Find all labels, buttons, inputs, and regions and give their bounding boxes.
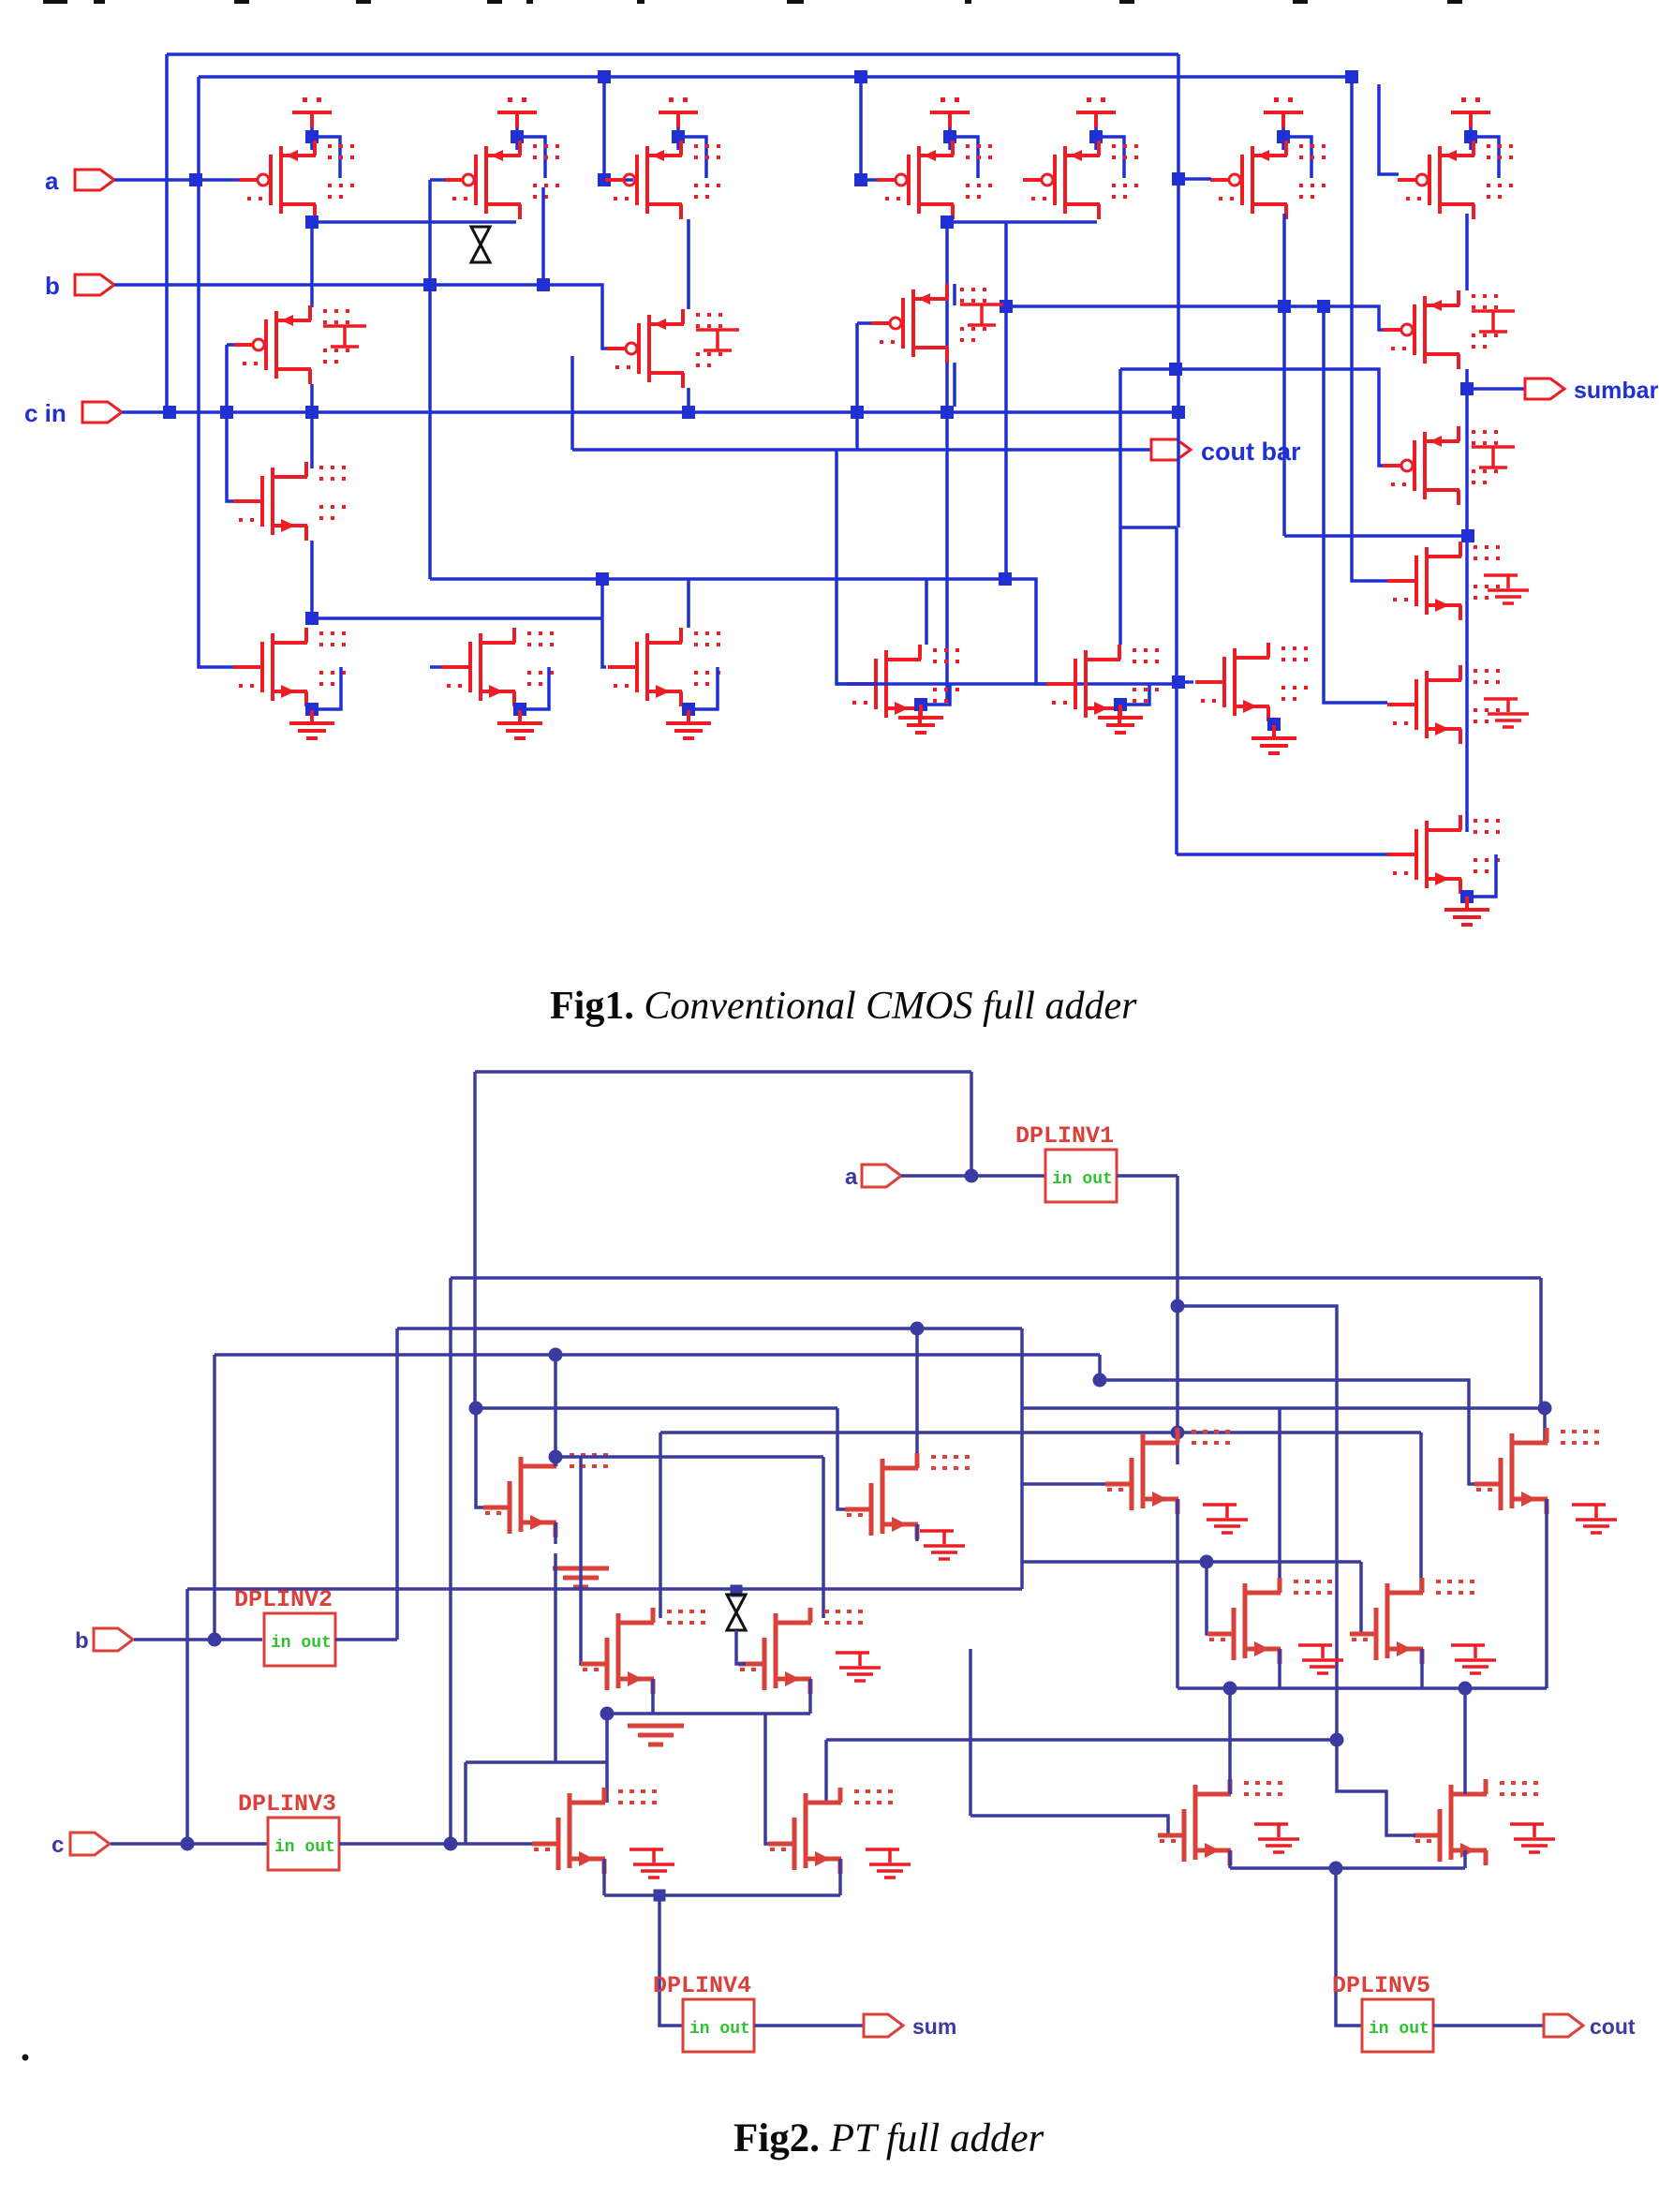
junction cin/col1 bbox=[220, 406, 233, 419]
transistor M60 (NMOS) bbox=[1158, 1779, 1282, 1865]
wire c vertical bbox=[185, 1589, 189, 1844]
wire M19 source bbox=[1272, 721, 1276, 735]
wire M33 drain vertical bbox=[822, 1457, 825, 1618]
svg-text:cout bar: cout bar bbox=[1201, 438, 1301, 466]
wire DPLINV5 out bbox=[1433, 2024, 1543, 2027]
junction row1829 bbox=[600, 1707, 615, 1721]
transistor M18 (PMOS) bbox=[1383, 426, 1498, 505]
wire M3 drain to M12 bbox=[687, 219, 690, 309]
port a bbox=[75, 170, 114, 190]
wire M15 drain up bbox=[953, 284, 956, 305]
ground M61 sub bbox=[1510, 1824, 1555, 1852]
wire M1 drain to M8 source bbox=[310, 219, 314, 307]
svg-text:DPLINV4: DPLINV4 bbox=[653, 1972, 751, 1999]
junction x1174/row1473 bbox=[1093, 1373, 1107, 1388]
VDD supply M3 bbox=[659, 97, 698, 127]
wire bulk loop M6 bbox=[1284, 137, 1311, 178]
transistor M8 (PMOS) bbox=[234, 305, 349, 384]
wire row 1938 to M60 gate bbox=[970, 1816, 1168, 1835]
cropped text line fragments (top of page) bbox=[43, 0, 67, 4]
ground M43 sub bbox=[1451, 1645, 1496, 1673]
wire x979 link bbox=[915, 1329, 919, 1433]
wire row 912 bbox=[1177, 853, 1417, 856]
wire M13 bulk loop bbox=[689, 667, 718, 709]
wire row 1857 bbox=[826, 1738, 1337, 1742]
wire to M50 drain bbox=[605, 1714, 609, 1803]
wire M11 source bbox=[518, 706, 522, 720]
wire M13 source bbox=[687, 706, 690, 720]
wire b input row bbox=[114, 285, 609, 349]
transistor M3 (PMOS) bbox=[605, 141, 720, 219]
wire row 1503 bbox=[476, 1406, 837, 1410]
wire row 1696 bbox=[187, 1587, 1022, 1591]
wire VDD stub M2 bbox=[515, 127, 519, 150]
substrate tie bbox=[1472, 311, 1515, 332]
junction cin/col3 stack bbox=[682, 406, 695, 419]
transistor M40 (NMOS) bbox=[1105, 1428, 1230, 1514]
junction VDD M3 bbox=[672, 130, 685, 143]
junction b node bbox=[208, 1633, 222, 1647]
wire x1174 drop bbox=[1098, 1355, 1102, 1380]
junction b / col2 bbox=[423, 278, 437, 291]
ground M42 sub bbox=[1298, 1645, 1343, 1673]
junction cout node bbox=[1329, 1862, 1343, 1876]
wire DPLINV2 out bbox=[335, 1638, 397, 1641]
wire M17 drain chain x1196 bbox=[1118, 369, 1122, 645]
junction inner rail / P3 gate drop bbox=[598, 70, 611, 83]
wire a input bbox=[114, 178, 242, 182]
wire M15 source to cin bbox=[953, 363, 956, 407]
wire x1413 to M21 gate bbox=[1324, 306, 1387, 703]
wire M31 source bbox=[915, 1524, 919, 1541]
junction M19 source bbox=[1267, 718, 1281, 731]
junction sum node bbox=[654, 1890, 666, 1902]
transistor M2 (PMOS) bbox=[444, 141, 559, 219]
wire VDD stub M3 bbox=[676, 127, 680, 150]
wire M7 to M14 bbox=[1465, 214, 1469, 290]
wire DPLINV1 out bbox=[1117, 1174, 1178, 1178]
junction x1258/M19 gate bbox=[1172, 675, 1185, 689]
ground M21 sub bbox=[1484, 699, 1529, 727]
wire M60 drain up bbox=[1228, 1688, 1232, 1794]
wire row 326 to M14 gate bbox=[1006, 306, 1387, 330]
ground M33 sub bbox=[836, 1653, 881, 1681]
transistor M1 (PMOS) bbox=[239, 141, 354, 219]
transistor M12 (PMOS) bbox=[607, 309, 722, 388]
transistor M15 (PMOS) bbox=[871, 284, 986, 363]
wire M50 source down bbox=[602, 1859, 606, 1895]
svg-text:sumbar: sumbar bbox=[1574, 378, 1659, 404]
port c bbox=[70, 1833, 110, 1855]
wire bulk loop M7 bbox=[1472, 137, 1499, 178]
svg-text:in out: in out bbox=[689, 2020, 750, 2039]
wire row 1667 bbox=[1022, 1560, 1361, 1564]
junction row618 col3 bbox=[596, 572, 609, 586]
wire VDD outer rail bbox=[167, 52, 1178, 56]
wire VDD stub M4 bbox=[948, 127, 952, 150]
wire M8 to M9 bbox=[310, 384, 314, 468]
junction cin/col1 stack bbox=[305, 406, 318, 419]
wire M19 gate lead bbox=[1178, 680, 1193, 684]
junction c-out node bbox=[444, 1837, 458, 1851]
transistor M4 (PMOS) bbox=[877, 141, 992, 219]
wire row 1364 bbox=[451, 1276, 1541, 1280]
svg-text:DPLINV1: DPLINV1 bbox=[1015, 1122, 1114, 1150]
svg-text:in out: in out bbox=[1052, 1170, 1113, 1189]
wire bulk loop M3 bbox=[679, 137, 706, 178]
wire M13 drain up bbox=[687, 579, 690, 628]
transistor M14 (PMOS) bbox=[1383, 290, 1498, 369]
junction cin/right vertical bbox=[1172, 406, 1185, 419]
ground M50 sub bbox=[630, 1849, 674, 1878]
wire M51 gate feed bbox=[765, 1714, 778, 1844]
junction row1418/x979 bbox=[911, 1322, 925, 1336]
wire x1091 vertical bbox=[1020, 1329, 1024, 1589]
transistor M33 (NMOS) bbox=[738, 1608, 863, 1694]
wire col4 vertical bbox=[1004, 222, 1008, 579]
junction cin/P4m gate bbox=[851, 406, 864, 419]
ground M22 bbox=[1444, 897, 1489, 925]
junction VDD M2 bbox=[511, 130, 524, 143]
ground col3 bbox=[666, 710, 711, 738]
svg-text:DPLINV2: DPLINV2 bbox=[234, 1586, 333, 1613]
transistor M17 (NMOS) bbox=[1046, 645, 1159, 723]
wire M60 source bbox=[1228, 1850, 1232, 1868]
transistor M51 (NMOS) bbox=[768, 1788, 893, 1874]
wire M22 bulk loop bbox=[1468, 854, 1496, 897]
ground M40 sub bbox=[1203, 1505, 1248, 1533]
substrate tie bbox=[960, 304, 1003, 325]
junction cin/col4 chain bbox=[941, 406, 954, 419]
wire P3 gate feed bbox=[604, 77, 633, 180]
wire M9 source down bbox=[310, 541, 314, 618]
svg-text:a: a bbox=[845, 1165, 858, 1190]
wire DPLINV2 out vertical bbox=[395, 1329, 399, 1640]
junction M4 drain bbox=[941, 215, 954, 229]
wire M7 gate feed bbox=[1379, 84, 1399, 174]
junction M16 source bbox=[914, 698, 927, 711]
ground col2 bbox=[497, 710, 542, 738]
port a bbox=[862, 1165, 901, 1187]
transistor M7 (PMOS) bbox=[1398, 141, 1513, 219]
wire VDD stub M5 bbox=[1094, 127, 1098, 150]
junction VDD M6 bbox=[1277, 130, 1290, 143]
svg-text:a: a bbox=[45, 167, 59, 195]
junction VDD M4 bbox=[943, 130, 956, 143]
substrate tie bbox=[323, 326, 366, 347]
wire M61 drain up bbox=[1463, 1688, 1467, 1794]
wire sumbar out bbox=[1467, 387, 1524, 391]
wire P4m gate lead bbox=[857, 321, 874, 325]
svg-text:DPLINV5: DPLINV5 bbox=[1332, 1972, 1430, 1999]
wire M42 gate feed bbox=[1207, 1562, 1220, 1634]
svg-text:DPLINV3: DPLINV3 bbox=[238, 1790, 336, 1818]
svg-text:in out: in out bbox=[1369, 2020, 1429, 2039]
symbol X pass marker 2 bbox=[727, 1595, 746, 1630]
junction row1503/left bbox=[469, 1402, 483, 1416]
junction c node bbox=[181, 1837, 195, 1851]
stray period bbox=[22, 2055, 29, 2061]
wire row 1802 bbox=[1178, 1686, 1547, 1690]
ground M41 sub bbox=[1572, 1505, 1617, 1533]
junction X node bbox=[731, 1585, 743, 1597]
VDD supply M2 bbox=[497, 97, 537, 127]
wire x1257 chain bbox=[1176, 1176, 1179, 1464]
junction VDD M5 bbox=[1089, 130, 1103, 143]
wire row 1446 bbox=[215, 1353, 1100, 1357]
junction x593/row1555 bbox=[549, 1450, 563, 1464]
wire inner rail bbox=[199, 75, 1352, 79]
svg-text:in out: in out bbox=[274, 1838, 335, 1857]
ground col4b bbox=[898, 705, 943, 733]
junction inner rail / P4 gate drop bbox=[854, 70, 867, 83]
wire M4-M5 drain row bbox=[947, 220, 1097, 224]
wire b input bbox=[134, 1638, 262, 1641]
wire M32 drain vertical bbox=[659, 1433, 662, 1618]
junction sumbar bbox=[1460, 382, 1474, 395]
transistor M42 (NMOS) bbox=[1207, 1578, 1332, 1664]
junction P4 gate bbox=[854, 173, 867, 186]
VDD supply M6 bbox=[1264, 97, 1303, 127]
transistor M10 (NMOS) bbox=[233, 628, 346, 706]
wire M10 source bbox=[310, 706, 314, 720]
junction inner rail corner bbox=[1345, 70, 1358, 83]
junction b / P2 drain bbox=[537, 278, 550, 291]
transistor M50 (NMOS) bbox=[532, 1788, 657, 1874]
junction M13 source bbox=[682, 703, 695, 716]
wire M2 drain drop bbox=[541, 187, 545, 285]
transistor M5 (PMOS) bbox=[1023, 141, 1138, 219]
wire row1473 to M41 gate bbox=[1100, 1380, 1478, 1484]
wire row 660 bbox=[312, 616, 570, 620]
wire M43 gate feed bbox=[1361, 1562, 1362, 1634]
wire M11 bulk loop bbox=[521, 667, 549, 709]
junction M6 drain bbox=[1278, 300, 1291, 313]
transistor M32 (NMOS) bbox=[581, 1608, 705, 1694]
wire top loop horizontal bbox=[475, 1070, 971, 1074]
transistor M19 (NMOS) bbox=[1195, 643, 1308, 721]
junction a / vertical bbox=[189, 173, 202, 186]
symbol X pass marker bbox=[471, 227, 490, 262]
wire x1427 long vertical bbox=[1306, 1306, 1337, 1740]
port sumbar bbox=[1525, 379, 1564, 399]
wire M16 source bbox=[919, 701, 923, 714]
junction VDD M7 bbox=[1464, 130, 1477, 143]
transistor M43 (NMOS) bbox=[1350, 1578, 1474, 1664]
wire M33 source down bbox=[808, 1679, 812, 1714]
wire DPLINV3 out to M50 gate bbox=[339, 1842, 553, 1846]
wire row 618 bbox=[430, 579, 1051, 684]
wire VDD stub M6 bbox=[1281, 127, 1285, 150]
wire M6 drain long bbox=[1282, 214, 1286, 536]
ground col1 bbox=[289, 710, 334, 738]
transistor M21 (NMOS) bbox=[1387, 665, 1500, 744]
wire M43 source bbox=[1420, 1649, 1424, 1688]
wire bulk loop M2 bbox=[518, 137, 545, 178]
transistor M6 (PMOS) bbox=[1210, 141, 1326, 219]
wire row 1418 bbox=[397, 1327, 1022, 1330]
ground M51 sub bbox=[866, 1849, 911, 1878]
junction x1257/row1529 bbox=[1171, 1426, 1185, 1440]
wire M16 drain up bbox=[925, 579, 928, 645]
junction a node bbox=[965, 1169, 979, 1183]
port b bbox=[94, 1628, 133, 1651]
wire bulk loop M1 bbox=[313, 137, 340, 178]
transistor M22 (NMOS) bbox=[1387, 815, 1500, 894]
svg-text:Fig1. Conventional CMOS full a: Fig1. Conventional CMOS full adder bbox=[550, 985, 1137, 1028]
wire M41 source down bbox=[1545, 1499, 1548, 1688]
svg-text:Fig2. PT full adder: Fig2. PT full adder bbox=[733, 2116, 1044, 2160]
wire row 394 to M18 gate bbox=[1120, 369, 1387, 466]
port b bbox=[75, 275, 114, 295]
junction M1 drain bbox=[305, 215, 318, 229]
wire to DPLINV4 bbox=[659, 1895, 683, 2026]
wire row 660 extension bbox=[570, 616, 602, 620]
wire x497 drop bbox=[464, 1762, 467, 1844]
wire b vertical bbox=[213, 1355, 216, 1640]
wire row 572 bbox=[1284, 534, 1468, 538]
svg-text:b: b bbox=[45, 272, 60, 300]
junction M11 source bbox=[513, 703, 526, 716]
wire row 1555 bbox=[555, 1455, 823, 1459]
wire gate row 730 bbox=[837, 682, 1178, 686]
wire x1036 vertical bbox=[969, 1649, 972, 1816]
wire top loop left vertical bbox=[473, 1072, 477, 1408]
wire M10 bulk loop bbox=[313, 667, 341, 709]
wire M30 source bbox=[554, 1522, 557, 1544]
wire M22 source bbox=[1465, 894, 1469, 906]
wire M6 gate lead bbox=[1178, 177, 1211, 181]
wire col3 mid vertical bbox=[570, 356, 574, 450]
wire cin row bbox=[122, 410, 1178, 414]
wire M51 drain up bbox=[824, 1740, 828, 1803]
wire x915 vertical bbox=[855, 323, 859, 450]
svg-text:sum: sum bbox=[912, 2014, 956, 2039]
port c in bbox=[82, 402, 122, 423]
svg-text:cout: cout bbox=[1590, 2014, 1636, 2039]
port sum bbox=[864, 2014, 903, 2037]
VDD supply M7 bbox=[1451, 97, 1490, 127]
wire b vertical col2 bbox=[428, 180, 432, 579]
wire M16 bulk loop bbox=[922, 684, 950, 705]
wire x593 vertical bbox=[554, 1355, 557, 1466]
junction P3 gate bbox=[598, 173, 611, 186]
wire right long vertical x1258 bbox=[1177, 54, 1180, 527]
wire row 563 bbox=[1120, 526, 1177, 529]
wire M31 drain drop bbox=[915, 1433, 919, 1468]
wire left outer drop bbox=[165, 54, 169, 412]
svg-text:c in: c in bbox=[24, 399, 67, 427]
wire M61 source bbox=[1463, 1850, 1467, 1868]
wire to M30 gate bbox=[476, 1408, 491, 1507]
substrate tie bbox=[1472, 447, 1515, 468]
junction row1857/x1427 bbox=[1330, 1733, 1344, 1747]
wire x242 vertical bbox=[227, 345, 236, 501]
junction cin/outer bbox=[163, 406, 176, 419]
wire M17 bulk loop bbox=[1121, 684, 1149, 705]
ground M31 sub bbox=[920, 1531, 965, 1559]
wire M2 gate lead bbox=[430, 178, 445, 182]
junction M6 gate bbox=[1172, 172, 1185, 186]
transistor M13 (NMOS) bbox=[608, 628, 720, 706]
junction row1503/x1645 bbox=[1538, 1402, 1552, 1416]
junction row326/x1413 bbox=[1317, 300, 1330, 313]
ground M32 bbox=[628, 1726, 684, 1744]
wire row 1829 bbox=[607, 1712, 810, 1715]
wire coutbar row bbox=[572, 448, 1151, 452]
wire M41 drain drop bbox=[1543, 1408, 1547, 1443]
transistor M20 (NMOS) bbox=[1387, 542, 1500, 620]
transistor M16 (NMOS) bbox=[847, 645, 959, 723]
wire a to DPLINV1 bbox=[901, 1174, 1045, 1178]
wire P2a gate lead bbox=[227, 343, 236, 347]
svg-text:b: b bbox=[75, 1628, 89, 1654]
wire row 1394 bbox=[1179, 1304, 1306, 1308]
wire row 1994 bbox=[1230, 1866, 1465, 1870]
svg-text:in out: in out bbox=[271, 1634, 332, 1653]
wire a-line vertical to N1 gate bbox=[199, 77, 239, 667]
wire row 1881 bbox=[466, 1760, 607, 1764]
junction M22 source bbox=[1460, 890, 1474, 903]
transistor M11 (NMOS) bbox=[441, 628, 554, 706]
wire X to M33 gate bbox=[736, 1630, 746, 1664]
wire M13 gate feed bbox=[602, 579, 606, 667]
wire top loop right vertical bbox=[970, 1072, 973, 1175]
wire M51 source down bbox=[838, 1859, 842, 1895]
junction row394 bbox=[1169, 363, 1182, 376]
wire M11 gate lead bbox=[430, 665, 441, 669]
wire sum chain vertical bbox=[1465, 369, 1469, 832]
transistor M41 (NMOS) bbox=[1474, 1428, 1599, 1514]
wire M42 source bbox=[1278, 1649, 1281, 1688]
wire to M61 gate bbox=[1337, 1740, 1415, 1835]
wire x1645 drop bbox=[1539, 1278, 1543, 1408]
junction row1802/x1564 bbox=[1459, 1682, 1473, 1696]
junction row1802/M60 drain bbox=[1223, 1682, 1237, 1696]
wire x1517 to M43 drain bbox=[1419, 1433, 1423, 1593]
junction row1446/x593 bbox=[549, 1348, 563, 1362]
wire M40 source down bbox=[1176, 1499, 1179, 1688]
wire M42 drain up bbox=[1278, 1408, 1281, 1593]
wire P4 gate feed bbox=[861, 77, 881, 180]
wire c input bbox=[111, 1842, 268, 1846]
wire x481 long vertical bbox=[449, 1278, 452, 1844]
wire x1443 to M20 gate bbox=[1352, 77, 1417, 581]
wire x1256 vertical bbox=[1175, 527, 1178, 854]
wire x593 lower bbox=[554, 1553, 557, 1762]
wire DPLINV4 out bbox=[754, 2024, 863, 2027]
wire row 1503 right bbox=[1022, 1406, 1545, 1410]
wire M32 source down bbox=[651, 1679, 655, 1714]
transistor M9 (NMOS) bbox=[233, 462, 346, 541]
wire x620 to M32 gate bbox=[581, 1457, 590, 1664]
wire row 1529 bbox=[660, 1431, 1421, 1434]
junction M17 source bbox=[1114, 698, 1127, 711]
ground col5 bbox=[1098, 705, 1143, 733]
wire M40 gate lead bbox=[1022, 1482, 1109, 1486]
junction col1/row660 bbox=[305, 612, 318, 625]
wire M12 drain to cin bbox=[687, 388, 690, 412]
wire to M31 gate bbox=[837, 1408, 854, 1509]
ground M30 bbox=[553, 1568, 609, 1587]
ground M60 sub bbox=[1254, 1824, 1299, 1852]
wire M1-M2 drain row bbox=[312, 220, 516, 224]
VDD supply M5 bbox=[1076, 97, 1116, 127]
wire row 2023 bbox=[604, 1893, 840, 1897]
wire to DPLINV5 bbox=[1336, 1868, 1362, 2026]
ground M19 bbox=[1252, 725, 1296, 753]
wire bulk loop M4 bbox=[951, 137, 978, 178]
